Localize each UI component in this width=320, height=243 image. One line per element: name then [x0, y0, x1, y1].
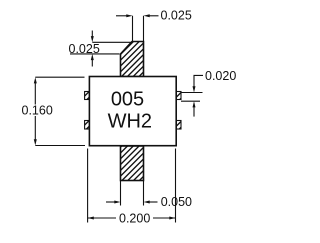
svg-text:0.025: 0.025 [69, 42, 100, 56]
svg-text:005: 005 [111, 89, 144, 111]
svg-text:0.050: 0.050 [161, 195, 192, 209]
svg-text:WH2: WH2 [108, 111, 152, 133]
svg-text:0.200: 0.200 [119, 212, 150, 226]
svg-text:0.160: 0.160 [22, 104, 53, 118]
svg-text:0.025: 0.025 [161, 9, 192, 23]
svg-text:0.020: 0.020 [205, 69, 236, 83]
